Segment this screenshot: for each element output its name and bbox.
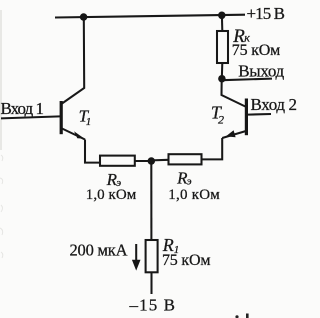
svg-text:R: R [162,235,174,255]
svg-text:к: к [244,30,250,44]
svg-text:Вход 1: Вход 1 [1,99,45,118]
svg-text:Вход 2: Вход 2 [251,95,298,114]
svg-text:1: 1 [174,244,180,256]
svg-text:1,0 кОм: 1,0 кОм [168,187,220,203]
svg-text:1: 1 [86,116,92,128]
svg-text:э: э [116,177,121,189]
svg-text:R: R [232,26,245,47]
svg-text:э: э [187,176,192,188]
svg-text:+15 В: +15 В [247,4,286,23]
svg-text:200 мкА: 200 мкА [70,240,128,259]
svg-text:Выход: Выход [238,61,284,80]
svg-text:2: 2 [218,112,224,126]
svg-text:1,0 кОм: 1,0 кОм [86,187,137,203]
svg-text:–15 В: –15 В [129,296,176,315]
